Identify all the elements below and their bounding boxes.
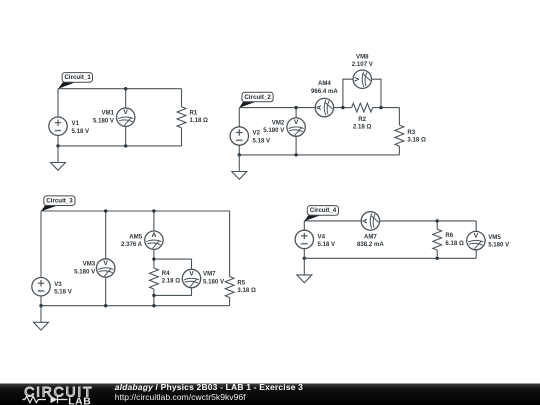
junction C1 top VM1 xyxy=(124,87,127,90)
junction C3 top AM5 xyxy=(152,209,155,212)
junction C2 node B xyxy=(379,106,382,109)
voltmeter VM8 xyxy=(353,70,371,88)
svg-text:VM7: VM7 xyxy=(203,271,216,278)
ground C4 xyxy=(297,258,312,282)
junction C1 bottom VM1 xyxy=(124,144,127,147)
voltmeter VM2 xyxy=(287,118,305,136)
svg-text:R1: R1 xyxy=(190,110,198,117)
svg-text:V3: V3 xyxy=(54,281,62,288)
wire V2 branch xyxy=(238,108,240,155)
junction C2 VM2 top xyxy=(294,106,297,109)
svg-text:R6: R6 xyxy=(445,232,453,239)
wire bottom C1 xyxy=(58,145,182,147)
wire VM8 left riser xyxy=(343,79,381,107)
wire R2 left lead xyxy=(343,107,352,109)
junction C2 bottom VM2 xyxy=(294,153,297,156)
wire top C4 xyxy=(304,220,476,222)
svg-text:VM1: VM1 xyxy=(101,110,114,117)
wire R1 top lead xyxy=(181,89,183,107)
voltmeter VM5 xyxy=(467,231,485,249)
svg-text:5.180 V: 5.180 V xyxy=(203,278,225,285)
svg-text:R2: R2 xyxy=(358,116,366,123)
wire bottom C4 xyxy=(304,257,476,259)
wire R4 top lead xyxy=(153,259,155,268)
junction C2 node A xyxy=(341,106,344,109)
wire V3 branch xyxy=(40,211,42,306)
wire VM2 branch xyxy=(295,108,297,155)
svg-text:VM5: VM5 xyxy=(488,234,501,241)
ground C2 xyxy=(232,155,247,179)
wire VM5 branch xyxy=(475,221,477,258)
svg-text:3.18 Ω: 3.18 Ω xyxy=(407,137,426,144)
wire R2 right lead xyxy=(373,107,381,109)
svg-text:Circuit_1: Circuit_1 xyxy=(64,74,91,81)
junction C3 top VM3 xyxy=(104,209,107,212)
svg-text:5.180 V: 5.180 V xyxy=(488,242,510,249)
wire VM3 branch xyxy=(105,211,107,306)
junction C4 R6 top xyxy=(436,219,439,222)
wire node B to R3 xyxy=(381,107,399,109)
wire R1 bottom lead xyxy=(181,128,183,146)
svg-text:VM8: VM8 xyxy=(356,54,369,61)
wire R3 top lead xyxy=(398,108,400,126)
resistor R3 xyxy=(395,125,404,146)
junction C3 bottom V3 xyxy=(39,304,42,307)
svg-text:2.18 Ω: 2.18 Ω xyxy=(353,123,372,130)
wire top C3 xyxy=(41,210,230,212)
svg-text:5.18 V: 5.18 V xyxy=(72,128,91,135)
svg-text:2.107 V: 2.107 V xyxy=(352,61,374,68)
svg-text:5.18 V: 5.18 V xyxy=(253,137,272,144)
voltmeter VM7 xyxy=(182,269,200,287)
resistor R6 xyxy=(433,229,442,250)
ammeter AM4 xyxy=(315,98,333,116)
junction C4 bottom V4 xyxy=(303,257,306,260)
node label Circuit_4 xyxy=(304,206,338,222)
ammeter AM7 xyxy=(361,212,379,230)
svg-text:966.4 mA: 966.4 mA xyxy=(311,88,338,95)
CircuitLab logo resistor squiggle xyxy=(23,396,47,402)
svg-text:2.376 A: 2.376 A xyxy=(121,241,143,248)
svg-text:V2: V2 xyxy=(253,130,261,137)
svg-text:http://circuitlab.com/cwctr5k9: http://circuitlab.com/cwctr5k9kv96f xyxy=(115,392,246,402)
voltage source V4 xyxy=(295,230,313,248)
wire top C2 xyxy=(239,107,343,109)
wire top C1 xyxy=(58,88,182,90)
resistor R5 xyxy=(225,277,234,298)
ammeter AM5 xyxy=(145,231,163,249)
wire R6 top lead xyxy=(436,221,438,229)
wire AM5 branch xyxy=(153,211,155,259)
voltmeter VM3 xyxy=(97,259,115,277)
svg-text:3.18 Ω: 3.18 Ω xyxy=(237,287,256,294)
svg-text:6.18 Ω: 6.18 Ω xyxy=(445,240,464,247)
svg-text:1.18 Ω: 1.18 Ω xyxy=(190,117,209,124)
wire VM1 branch xyxy=(125,89,127,146)
svg-text:AM5: AM5 xyxy=(129,233,142,240)
voltmeter VM1 xyxy=(117,108,135,126)
wire R6 bottom lead xyxy=(436,250,438,258)
svg-text:AM4: AM4 xyxy=(318,80,331,87)
resistor R4 xyxy=(150,268,159,289)
svg-text:R5: R5 xyxy=(237,280,245,287)
junction C4 R6 bottom xyxy=(436,257,439,260)
voltage source V2 xyxy=(230,127,248,145)
junction C2 bottom V2 xyxy=(238,153,241,156)
svg-text:Circuit_4: Circuit_4 xyxy=(310,207,337,214)
svg-text:LAB: LAB xyxy=(68,396,91,405)
svg-text:aldabagy / Physics 2B03 - LAB: aldabagy / Physics 2B03 - LAB 1 - Exerci… xyxy=(115,382,303,392)
svg-text:5.180 V: 5.180 V xyxy=(93,117,115,124)
svg-text:V4: V4 xyxy=(318,233,326,240)
svg-text:R3: R3 xyxy=(407,129,415,136)
svg-text:838.2 mA: 838.2 mA xyxy=(357,241,384,248)
svg-text:2.18 Ω: 2.18 Ω xyxy=(162,278,181,285)
voltage source V1 xyxy=(49,117,67,135)
wire bottom C3 xyxy=(41,305,230,307)
junction C3 bottom VM3 xyxy=(104,304,107,307)
svg-text:Circuit_2: Circuit_2 xyxy=(244,94,271,101)
svg-text:R4: R4 xyxy=(162,270,170,277)
resistor R1 xyxy=(177,107,186,128)
svg-text:AM7: AM7 xyxy=(364,233,377,240)
junction C1 bottom V1 xyxy=(56,144,59,147)
node label Circuit_1 xyxy=(58,73,93,89)
node label Circuit_3 xyxy=(41,196,75,211)
ground C3 xyxy=(34,306,49,330)
svg-text:5.18 V: 5.18 V xyxy=(54,289,73,296)
wire VM7 loop top xyxy=(154,259,192,295)
ground C1 xyxy=(51,146,66,170)
wire V4 branch xyxy=(303,221,305,258)
wire left C1 (V1 branch) xyxy=(57,89,59,146)
wire bottom C2 xyxy=(239,154,399,156)
svg-text:VM3: VM3 xyxy=(83,261,96,268)
svg-text:5.18 V: 5.18 V xyxy=(318,241,337,248)
wire R4 bottom lead xyxy=(153,289,155,306)
voltage source V3 xyxy=(32,278,50,296)
wire R3 bottom lead xyxy=(398,146,400,155)
junction C3 bottom R4 xyxy=(152,304,155,307)
resistor R2 xyxy=(352,103,373,112)
junction C3 node R4-VM7 xyxy=(152,294,155,297)
wire R5 bottom lead xyxy=(229,298,231,306)
footer bar xyxy=(0,384,540,405)
svg-text:VM2: VM2 xyxy=(272,119,285,126)
svg-text:5.180 V: 5.180 V xyxy=(263,127,285,134)
CircuitLab logo diode xyxy=(51,396,58,403)
svg-text:Circuit_3: Circuit_3 xyxy=(46,198,73,205)
wire R5 top lead xyxy=(229,211,231,277)
svg-text:V1: V1 xyxy=(72,120,80,127)
svg-text:5.180 V: 5.180 V xyxy=(74,268,96,275)
node label Circuit_2 xyxy=(239,92,273,108)
junction C3 node AM5-R4 xyxy=(152,257,155,260)
